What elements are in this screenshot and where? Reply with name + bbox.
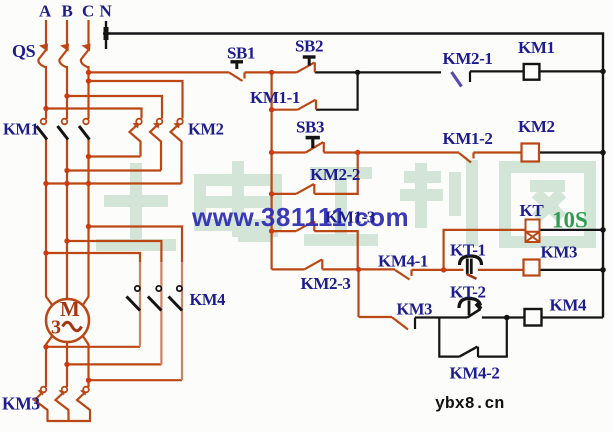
svg-text:KM2: KM2 — [518, 117, 555, 136]
svg-text:KM1: KM1 — [3, 120, 39, 139]
svg-text:QS: QS — [12, 41, 36, 61]
svg-text:KM4-2: KM4-2 — [450, 364, 500, 383]
svg-text:KM1-1: KM1-1 — [250, 88, 300, 107]
svg-text:A: A — [39, 2, 52, 21]
svg-text:M: M — [60, 297, 80, 321]
svg-text:KM4: KM4 — [190, 290, 226, 309]
svg-text:KT-1: KT-1 — [450, 241, 486, 260]
svg-text:KM2-2: KM2-2 — [310, 165, 360, 184]
svg-text:www.381111.com: www.381111.com — [191, 202, 409, 232]
svg-text:KM3: KM3 — [397, 300, 433, 319]
svg-text:KM1: KM1 — [518, 38, 555, 57]
svg-text:KM2-1: KM2-1 — [443, 49, 493, 68]
svg-text:SB1: SB1 — [227, 44, 255, 63]
svg-text:KT-2: KT-2 — [450, 283, 486, 302]
svg-text:KM1-3: KM1-3 — [325, 208, 375, 227]
svg-text:KM3: KM3 — [541, 243, 578, 262]
svg-text:KM1-2: KM1-2 — [443, 129, 493, 148]
svg-text:SB2: SB2 — [295, 37, 323, 56]
svg-text:N: N — [100, 2, 113, 21]
svg-text:SB3: SB3 — [296, 118, 324, 137]
svg-text:KM2: KM2 — [188, 120, 224, 139]
svg-text:KM3: KM3 — [2, 394, 40, 414]
svg-text:ybx8.cn: ybx8.cn — [435, 394, 504, 413]
svg-text:KM4-1: KM4-1 — [378, 252, 428, 271]
svg-text:KT: KT — [520, 201, 545, 220]
svg-text:10S: 10S — [552, 208, 588, 233]
svg-text:B: B — [62, 2, 73, 21]
svg-text:C: C — [82, 2, 94, 21]
svg-text:3: 3 — [51, 317, 61, 339]
svg-text:KM2-3: KM2-3 — [301, 274, 351, 293]
svg-text:KM4: KM4 — [550, 296, 587, 315]
